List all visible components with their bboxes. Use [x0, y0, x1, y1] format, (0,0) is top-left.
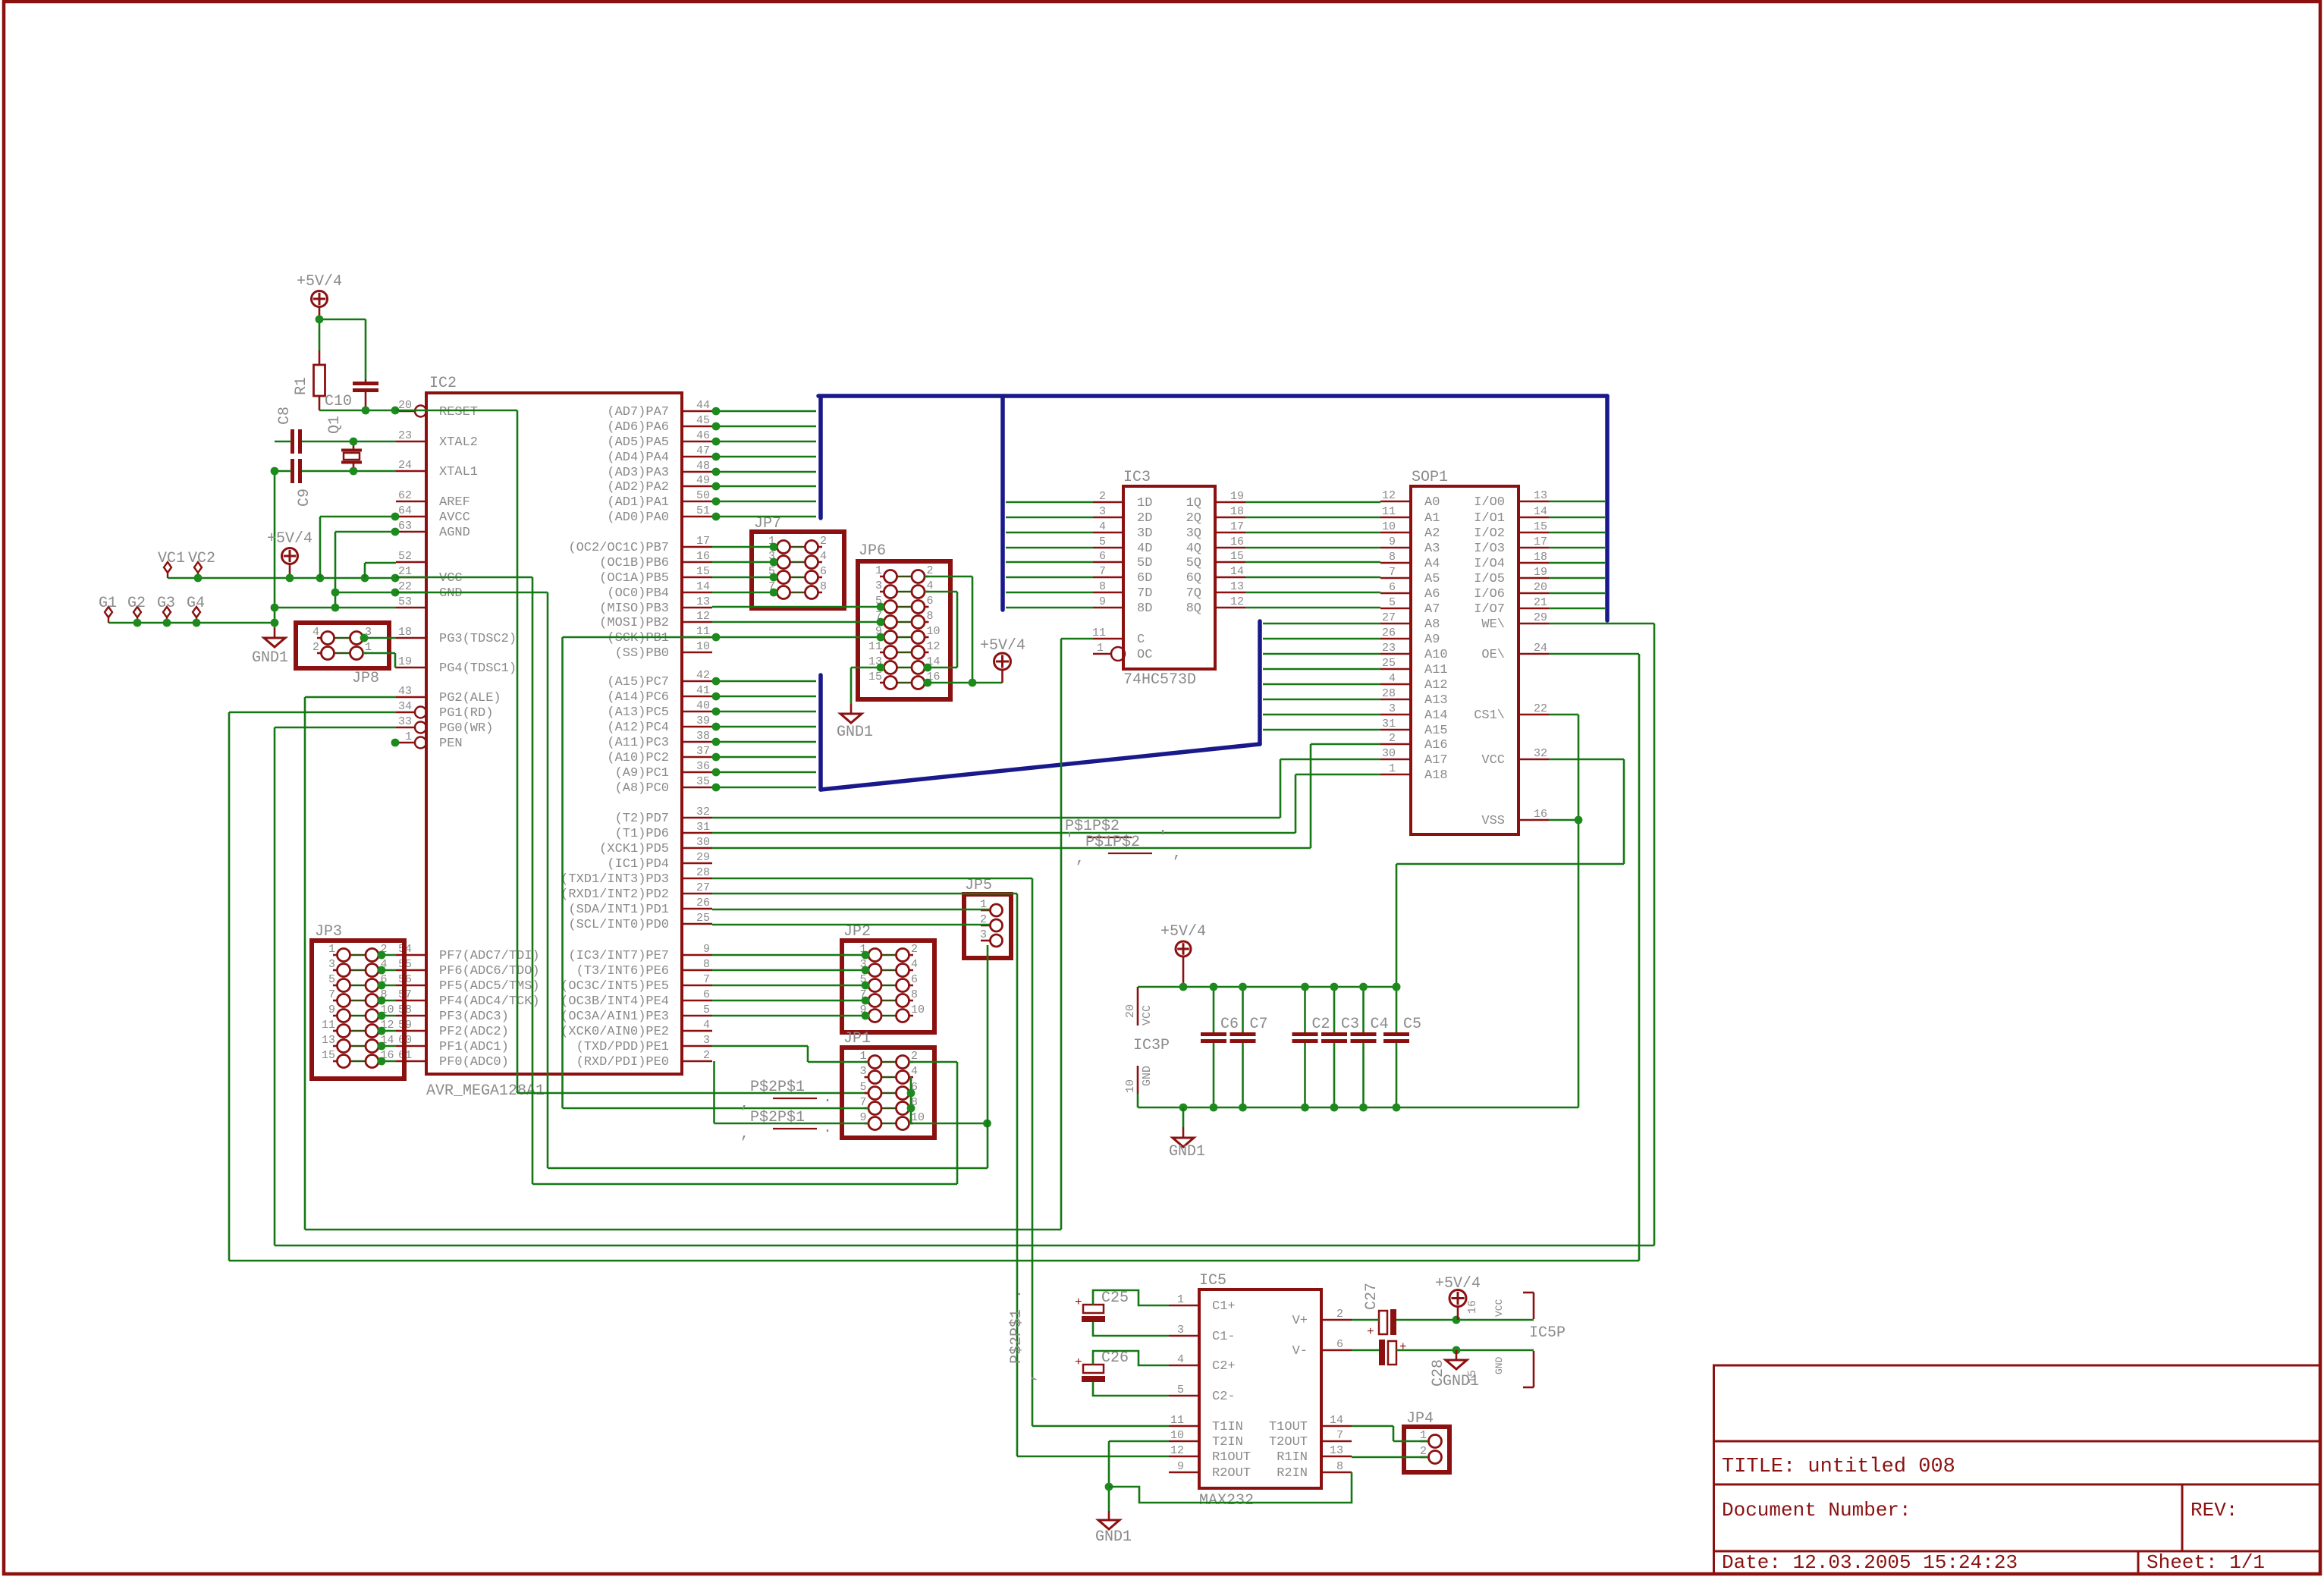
- svg-text:(AD3)PA3: (AD3)PA3: [607, 466, 669, 480]
- svg-text:G2: G2: [127, 595, 146, 612]
- power +5V/4 symbol at IC3P: [1176, 941, 1191, 956]
- svg-text:14: 14: [1534, 505, 1547, 518]
- svg-text:6: 6: [1389, 581, 1396, 594]
- svg-text:(OC3B/INT4)PE4: (OC3B/INT4)PE4: [561, 994, 669, 1009]
- svg-text:+: +: [1075, 1355, 1082, 1369]
- node T2IN R2IN junction: [1105, 1483, 1113, 1491]
- node Q1 bottom junction: [350, 467, 358, 476]
- svg-text:3: 3: [703, 1034, 710, 1047]
- wire CS1 net to IC3P GND rail: [1549, 714, 1578, 716]
- node +5V junction: [316, 316, 324, 324]
- svg-text:1: 1: [1177, 1293, 1184, 1306]
- svg-text:1: 1: [1097, 642, 1104, 655]
- svg-text:SOP1: SOP1: [1412, 469, 1448, 486]
- svg-text:T2OUT: T2OUT: [1269, 1435, 1308, 1450]
- svg-text:2: 2: [911, 943, 918, 956]
- svg-text:(MOSI)PB2: (MOSI)PB2: [599, 616, 669, 630]
- wire JP6.4 to JP6.14 loop: [925, 591, 957, 593]
- svg-text:VCC: VCC: [439, 571, 463, 586]
- svg-text:8: 8: [911, 988, 918, 1001]
- svg-text:38: 38: [696, 730, 710, 743]
- svg-text:GND1: GND1: [837, 724, 873, 741]
- svg-text:6: 6: [703, 988, 710, 1001]
- svg-text:P$1P$2: P$1P$2: [1085, 834, 1140, 851]
- svg-text:C10: C10: [325, 393, 352, 410]
- svg-text:PG1(RD): PG1(RD): [439, 706, 493, 721]
- svg-text:11: 11: [696, 625, 710, 638]
- svg-text:PF4(ADC4/TCK): PF4(ADC4/TCK): [439, 994, 540, 1009]
- wire PE1 net to JP1.1: [712, 1045, 808, 1048]
- svg-text:+5V/4: +5V/4: [267, 530, 312, 548]
- IC2 left-side pins: [396, 410, 415, 413]
- svg-text:3Q: 3Q: [1186, 526, 1201, 541]
- svg-text:1D: 1D: [1137, 496, 1152, 510]
- svg-text:42: 42: [696, 669, 710, 682]
- svg-text:PG2(ALE): PG2(ALE): [439, 691, 501, 705]
- svg-text:+5V/4: +5V/4: [980, 637, 1025, 655]
- svg-text:8: 8: [1336, 1460, 1343, 1473]
- node C10 bottom junction: [362, 407, 370, 415]
- pin G1: [105, 607, 112, 617]
- svg-text:45: 45: [696, 414, 710, 427]
- wire JP1.2 VCC net: [909, 1061, 957, 1063]
- svg-text:(OC1A)PB5: (OC1A)PB5: [599, 571, 669, 586]
- svg-text:(SS)PB0: (SS)PB0: [615, 646, 669, 661]
- svg-text:R1: R1: [293, 377, 310, 395]
- svg-text:5: 5: [1099, 536, 1106, 548]
- svg-text:(AD4)PA4: (AD4)PA4: [607, 451, 669, 465]
- IC IC5 MAX232 body: [1199, 1289, 1321, 1488]
- svg-text:CS1\: CS1\: [1474, 708, 1505, 723]
- wire VSS net: [1549, 819, 1578, 821]
- wire PD3 net to T1IN: [712, 878, 1032, 880]
- wire SOP1 VCC net to IC3P rail: [1549, 759, 1624, 761]
- svg-text:27: 27: [696, 881, 710, 894]
- IC SOP1 memory body: [1411, 486, 1518, 834]
- wire GND net over IC2 down to JP5.3: [396, 592, 548, 594]
- svg-text:G1: G1: [99, 595, 117, 612]
- svg-text:5: 5: [703, 1004, 710, 1016]
- svg-text:3: 3: [1389, 702, 1396, 715]
- svg-text:(AD5)PA5: (AD5)PA5: [607, 435, 669, 450]
- connector JP5 pins: [981, 909, 990, 912]
- svg-text:C26: C26: [1101, 1349, 1129, 1367]
- svg-text:JP5: JP5: [965, 877, 992, 894]
- svg-text:6D: 6D: [1137, 571, 1152, 586]
- svg-text:.: .: [823, 1120, 832, 1137]
- svg-text:(A11)PC3: (A11)PC3: [607, 736, 669, 750]
- svg-text:19: 19: [1230, 490, 1244, 503]
- wire VCC net over IC2 down to JP1.2: [396, 576, 532, 579]
- svg-text:(A14)PC6: (A14)PC6: [607, 690, 669, 705]
- svg-text:7Q: 7Q: [1186, 586, 1201, 601]
- svg-text:(A12)PC4: (A12)PC4: [607, 721, 669, 735]
- svg-text:37: 37: [696, 745, 710, 758]
- svg-text:10: 10: [911, 1004, 925, 1016]
- connector JP7 body: [752, 532, 844, 608]
- svg-text:22: 22: [1534, 702, 1547, 715]
- svg-text:24: 24: [1534, 642, 1547, 655]
- svg-text:20: 20: [1124, 1004, 1137, 1018]
- wire pin52 jog: [365, 562, 396, 564]
- wire R2IN net: [1109, 1472, 1352, 1503]
- svg-text:4: 4: [1389, 672, 1396, 685]
- wire V+ net: [1352, 1319, 1379, 1321]
- wire GND pin22 net: [335, 592, 396, 594]
- wire GND net JP5.3 down: [987, 945, 989, 1168]
- svg-text:12: 12: [696, 610, 710, 623]
- wire T2IN net to GND1: [1109, 1440, 1169, 1443]
- node rail C9 junction: [271, 467, 279, 476]
- svg-text:19: 19: [398, 655, 412, 668]
- svg-text:10: 10: [927, 625, 941, 638]
- SOP1 I/O pins: [1518, 501, 1549, 503]
- wire PD7 net to A17: [712, 817, 1280, 819]
- svg-text:C2-: C2-: [1212, 1390, 1236, 1404]
- svg-text:11: 11: [1092, 627, 1106, 639]
- svg-text:A18: A18: [1424, 768, 1448, 783]
- wire XTAL2 net: [302, 441, 396, 443]
- node VCC pin junction: [391, 574, 400, 583]
- wire SOP1 I/O to bus: [1549, 501, 1605, 503]
- svg-text:21: 21: [1534, 596, 1547, 609]
- svg-text:16: 16: [696, 550, 710, 563]
- SOP1 OE pin: [1518, 653, 1549, 655]
- svg-text:PF5(ADC5/TMS): PF5(ADC5/TMS): [439, 979, 540, 994]
- node G3 junction: [163, 619, 171, 627]
- svg-text:5: 5: [1177, 1384, 1184, 1396]
- svg-text:33: 33: [398, 715, 412, 728]
- power +5V/4 symbol at IC5P: [1449, 1290, 1466, 1307]
- svg-text:A8: A8: [1424, 617, 1440, 632]
- bus segment diagonal: [821, 744, 1260, 790]
- svg-text:30: 30: [696, 836, 710, 849]
- svg-text:(XCK1)PD5: (XCK1)PD5: [599, 842, 669, 856]
- svg-text:50: 50: [696, 489, 710, 502]
- node JP8 pin3 junction: [360, 634, 369, 642]
- svg-text:(A10)PC2: (A10)PC2: [607, 751, 669, 765]
- svg-text:26: 26: [696, 897, 710, 909]
- connector JP1 pins: [865, 1061, 869, 1063]
- svg-text:I/O3: I/O3: [1474, 542, 1505, 556]
- wire T1OUT net to JP4.1: [1352, 1425, 1393, 1428]
- svg-text:IC3P: IC3P: [1133, 1037, 1170, 1054]
- wire PA0-PA7 nets to bus: [712, 410, 816, 413]
- svg-text:4: 4: [927, 580, 934, 592]
- svg-text:A0: A0: [1424, 495, 1440, 510]
- svg-text:74HC573D: 74HC573D: [1123, 671, 1196, 689]
- wire pin53 net: [275, 607, 396, 609]
- svg-text:10: 10: [696, 640, 710, 653]
- svg-text:6: 6: [1099, 550, 1106, 563]
- IC3 OC pin: [1093, 653, 1111, 655]
- wire PG3 net JP8 to pin18: [363, 637, 396, 639]
- svg-text:2: 2: [1336, 1308, 1343, 1321]
- svg-text:PF7(ADC7/TDI): PF7(ADC7/TDI): [439, 949, 540, 963]
- svg-text:12: 12: [1230, 595, 1244, 608]
- svg-text:V+: V+: [1292, 1314, 1308, 1328]
- svg-text:R2OUT: R2OUT: [1212, 1466, 1251, 1481]
- svg-text:(SDA/INT1)PD1: (SDA/INT1)PD1: [568, 903, 669, 917]
- svg-text:44: 44: [696, 399, 710, 412]
- svg-text:3: 3: [1099, 505, 1106, 518]
- svg-text:(T1)PD6: (T1)PD6: [615, 827, 669, 841]
- node GND vertical junction: [983, 1120, 991, 1128]
- ground GND1 at IC5: [1108, 1511, 1110, 1520]
- svg-text:9: 9: [1177, 1460, 1184, 1473]
- capacitor C27: [1379, 1311, 1387, 1334]
- svg-text:18: 18: [1230, 505, 1244, 518]
- svg-text:64: 64: [398, 504, 412, 517]
- svg-text:PG0(WR): PG0(WR): [439, 721, 493, 736]
- svg-text:G4: G4: [187, 595, 205, 612]
- svg-text:GND: GND: [1493, 1356, 1505, 1374]
- svg-text:+: +: [1075, 1296, 1082, 1309]
- svg-text:31: 31: [1382, 718, 1396, 730]
- wire JP6.16 +5V net: [925, 682, 1003, 684]
- svg-text:16: 16: [1534, 808, 1547, 821]
- svg-text:(MISO)PB3: (MISO)PB3: [599, 602, 669, 616]
- svg-text:XTAL1: XTAL1: [439, 465, 478, 479]
- SOP1 WE pin: [1518, 623, 1549, 625]
- ground GND1 at C28: [1456, 1350, 1458, 1360]
- svg-text:(AD0)PA0: (AD0)PA0: [607, 510, 669, 525]
- connector JP7 pins: [773, 546, 777, 548]
- svg-text:8: 8: [927, 610, 934, 623]
- wire RESET long run over IC2 body to JP1.5: [396, 410, 517, 412]
- wire PB7 PB6 PB5 PB4 nets to JP7: [712, 546, 777, 548]
- svg-text:22: 22: [398, 580, 412, 593]
- connector JP3 body: [312, 941, 404, 1079]
- svg-text:AREF: AREF: [439, 495, 470, 510]
- svg-text:A7: A7: [1424, 602, 1440, 617]
- wire ALE net to IC3 C: [1061, 638, 1093, 640]
- svg-text:.: .: [823, 1089, 832, 1107]
- svg-text:28: 28: [1382, 687, 1396, 700]
- svg-text:2: 2: [1099, 490, 1106, 503]
- svg-text:14: 14: [1230, 565, 1244, 578]
- pin G4: [193, 607, 200, 617]
- node JP1.8 junction: [907, 1104, 915, 1113]
- wire SCK net to JP1.7: [563, 1107, 869, 1110]
- svg-text:RESET: RESET: [439, 405, 478, 419]
- svg-text:R1OUT: R1OUT: [1212, 1450, 1251, 1465]
- svg-text:25: 25: [696, 912, 710, 925]
- capacitor C3: [1333, 987, 1336, 1032]
- svg-text:10: 10: [1382, 520, 1396, 533]
- svg-text:30: 30: [1382, 747, 1396, 760]
- svg-text:JP4: JP4: [1406, 1410, 1434, 1428]
- svg-text:A2: A2: [1424, 526, 1440, 541]
- svg-text:32: 32: [1534, 747, 1547, 760]
- svg-text:24: 24: [398, 459, 412, 472]
- svg-text:+: +: [1399, 1340, 1407, 1354]
- svg-text:25: 25: [1382, 657, 1396, 670]
- node rail GND1 junction: [271, 619, 279, 627]
- svg-text:OE\: OE\: [1481, 648, 1505, 662]
- svg-text:53: 53: [398, 595, 412, 608]
- svg-text:3: 3: [1177, 1324, 1184, 1337]
- svg-text:GND: GND: [439, 586, 463, 601]
- svg-text:12: 12: [1382, 489, 1396, 502]
- svg-text:(SCL/INT0)PD0: (SCL/INT0)PD0: [568, 918, 669, 932]
- svg-text:1: 1: [328, 943, 335, 956]
- connector JP5 body: [964, 894, 1011, 958]
- svg-text:A13: A13: [1424, 693, 1448, 708]
- connector JP8 pins: [317, 637, 322, 639]
- svg-text:11: 11: [1382, 505, 1396, 518]
- svg-text:A4: A4: [1424, 557, 1440, 571]
- svg-text:(AD1)PA1: (AD1)PA1: [607, 495, 669, 510]
- svg-text:T1IN: T1IN: [1212, 1420, 1243, 1434]
- svg-text:Q1: Q1: [326, 416, 344, 434]
- capacitor C9: [290, 459, 294, 483]
- power IC3P symbol: [1137, 987, 1139, 1026]
- svg-text:4D: 4D: [1137, 542, 1152, 556]
- svg-text:1: 1: [1389, 762, 1396, 775]
- pin VC2: [194, 562, 202, 573]
- svg-text:52: 52: [398, 550, 412, 563]
- svg-text:21: 21: [398, 565, 412, 578]
- svg-text:I/O6: I/O6: [1474, 587, 1505, 602]
- capacitor C26: [1083, 1365, 1104, 1373]
- power +5V/4 symbol at JP6: [994, 653, 1011, 670]
- svg-text:9: 9: [328, 1004, 335, 1016]
- svg-text:63: 63: [398, 520, 412, 532]
- capacitor C7: [1242, 987, 1244, 1032]
- svg-text:PF2(ADC2): PF2(ADC2): [439, 1025, 509, 1039]
- svg-text:9: 9: [1389, 536, 1396, 548]
- svg-text:P$2P$1: P$2P$1: [750, 1079, 805, 1096]
- SOP1 address pins: [1380, 501, 1411, 503]
- svg-text:17: 17: [1534, 536, 1547, 548]
- connector JP6 pins: [880, 576, 884, 578]
- node AGND end junction: [331, 604, 340, 612]
- svg-text:I/O0: I/O0: [1474, 495, 1505, 510]
- svg-text:I/O1: I/O1: [1474, 511, 1505, 526]
- svg-text:41: 41: [696, 684, 710, 697]
- wire JP3 to PF pins: [378, 954, 396, 956]
- svg-text:4: 4: [1177, 1353, 1184, 1366]
- wire bus taps to IC3 D inputs: [1006, 501, 1093, 504]
- ground GND1 below JP6: [850, 704, 853, 714]
- svg-text:2D: 2D: [1137, 511, 1152, 526]
- svg-text:PG3(TDSC2): PG3(TDSC2): [439, 632, 517, 646]
- connector JP4 body: [1404, 1427, 1449, 1472]
- svg-text:51: 51: [696, 504, 710, 517]
- svg-text:,: ,: [740, 1126, 749, 1143]
- resistor R1: [319, 350, 321, 365]
- svg-text:34: 34: [398, 700, 412, 713]
- svg-text:3: 3: [328, 958, 335, 971]
- svg-text:OC: OC: [1137, 648, 1152, 662]
- bus segment vertical PA taps: [818, 396, 823, 518]
- svg-text:6: 6: [911, 973, 918, 986]
- svg-text:6: 6: [1336, 1338, 1343, 1351]
- svg-text:I/O5: I/O5: [1474, 572, 1505, 586]
- svg-text:(A9)PC1: (A9)PC1: [615, 766, 669, 781]
- node rail pin53 junction: [271, 604, 279, 612]
- svg-text:4: 4: [820, 550, 827, 563]
- svg-text:GND1: GND1: [1095, 1528, 1132, 1546]
- svg-text:8: 8: [820, 580, 827, 593]
- svg-text:10: 10: [911, 1111, 925, 1124]
- wire XTAL1 net: [302, 470, 396, 473]
- pin G2: [133, 607, 141, 617]
- ground GND1 at IC3P: [1179, 1104, 1188, 1112]
- svg-text:20: 20: [1534, 581, 1547, 594]
- svg-text:4Q: 4Q: [1186, 542, 1201, 556]
- node PEN pin stub: [391, 739, 400, 747]
- SOP1 VCC pin: [1518, 759, 1549, 761]
- svg-text:+5V/4: +5V/4: [1435, 1275, 1481, 1293]
- node G2 junction: [133, 619, 142, 627]
- IC3 data input pins: [1093, 501, 1123, 504]
- node RESET pin junction: [391, 407, 400, 415]
- svg-text:4: 4: [911, 958, 918, 971]
- svg-text:C6: C6: [1220, 1016, 1239, 1033]
- svg-text:12: 12: [927, 640, 941, 653]
- capacitor C10: [365, 379, 367, 382]
- svg-text:28: 28: [696, 866, 710, 879]
- wire AVCC net: [320, 516, 396, 518]
- node GND pin junction: [391, 589, 400, 597]
- svg-text:C1+: C1+: [1212, 1299, 1236, 1314]
- connector JP4 pins: [1420, 1440, 1429, 1443]
- node VCC rail +5V junction: [1179, 983, 1188, 991]
- svg-text:PF6(ADC6/TDO): PF6(ADC6/TDO): [439, 964, 540, 978]
- svg-text:GND1: GND1: [1169, 1143, 1205, 1161]
- svg-text:2: 2: [1389, 732, 1396, 745]
- wire R1IN net to JP4.2: [1352, 1456, 1428, 1459]
- svg-text:17: 17: [696, 535, 710, 548]
- svg-text:2: 2: [703, 1049, 710, 1062]
- svg-text:IC3: IC3: [1123, 469, 1151, 486]
- capacitor C8: [290, 429, 294, 454]
- svg-text:9: 9: [859, 1111, 866, 1124]
- svg-text:6: 6: [820, 565, 827, 578]
- svg-text:C7: C7: [1250, 1016, 1268, 1033]
- wire IC3P VCC rail: [1138, 986, 1396, 988]
- pin G3: [163, 607, 171, 617]
- svg-text:VC2: VC2: [188, 550, 215, 567]
- svg-text:PF3(ADC3): PF3(ADC3): [439, 1010, 509, 1024]
- svg-text:(A15)PC7: (A15)PC7: [607, 675, 669, 689]
- wire PD0 net to JP5.2: [712, 924, 990, 926]
- wire PD2 net to R1OUT: [712, 893, 1017, 895]
- svg-text:A10: A10: [1424, 648, 1448, 662]
- wire RESET net to pin 20: [319, 410, 396, 412]
- node JP1.6 junction: [907, 1089, 915, 1098]
- svg-text:A11: A11: [1424, 663, 1448, 677]
- wire IC3P GND rail: [1138, 1107, 1396, 1109]
- svg-text:2: 2: [927, 564, 934, 577]
- svg-text:49: 49: [696, 474, 710, 487]
- svg-text:MAX232: MAX232: [1199, 1492, 1254, 1509]
- svg-text:10: 10: [1124, 1079, 1137, 1093]
- node AVCC drop junction: [316, 574, 325, 583]
- wire MISO net pin13 to JP6.5: [712, 606, 884, 608]
- svg-text:36: 36: [696, 760, 710, 773]
- wire PG4 net JP8 to pin19: [363, 652, 395, 655]
- node +5V junction 2: [286, 574, 294, 583]
- svg-text:29: 29: [696, 851, 710, 864]
- svg-text:Document Number:: Document Number:: [1722, 1499, 1911, 1522]
- svg-text:REV:: REV:: [2191, 1499, 2238, 1522]
- svg-text:1: 1: [365, 641, 372, 654]
- svg-text:IC5P: IC5P: [1529, 1324, 1566, 1342]
- node AVCC pin junction: [391, 513, 400, 521]
